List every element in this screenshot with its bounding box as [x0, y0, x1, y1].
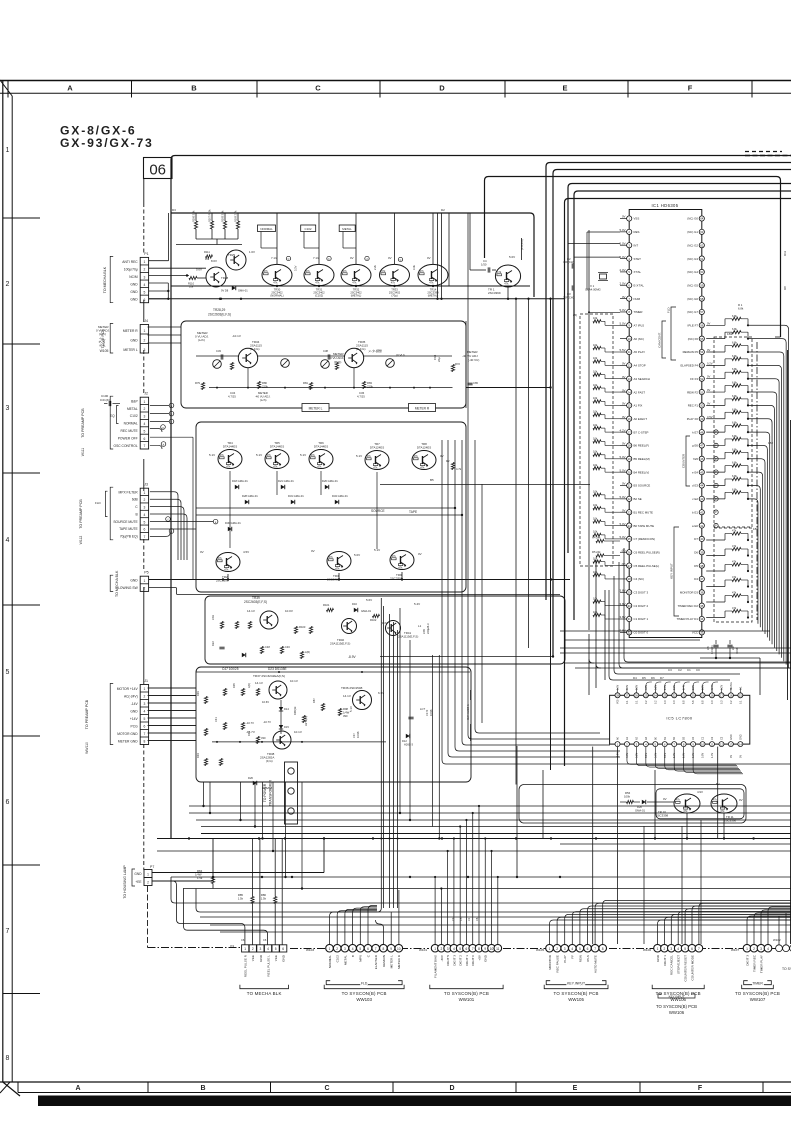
svg-text:3: 3	[447, 947, 449, 951]
svg-text:47k: 47k	[676, 797, 681, 801]
svg-text:10.1V: 10.1V	[294, 730, 302, 734]
svg-text:3: 3	[143, 348, 145, 352]
svg-text:3.8V: 3.8V	[692, 685, 695, 690]
wire bottom chain line y948	[148, 947, 242, 949]
svg-text:W105: W105	[536, 948, 544, 952]
svg-text:8.6V: 8.6V	[211, 259, 217, 263]
svg-text:0V: 0V	[739, 798, 743, 802]
svg-text:5.0V: 5.0V	[354, 553, 360, 557]
wire collector rails block1	[276, 213, 278, 264]
svg-text:4: 4	[267, 947, 269, 951]
svg-text:IPLE F7: IPLE F7	[688, 324, 699, 328]
svg-text:3: 3	[670, 947, 672, 951]
left small resistors R93 R94	[204, 697, 207, 704]
transistor TR6 DTA144ES	[309, 450, 333, 469]
svg-text:3.8V: 3.8V	[702, 685, 705, 690]
svg-text:3.4V: 3.4V	[683, 685, 686, 690]
svg-text:0V: 0V	[707, 401, 710, 405]
svg-text:1: 1	[147, 873, 149, 877]
svg-text:MOTOR +14V: MOTOR +14V	[117, 687, 139, 691]
svg-text:10: 10	[490, 947, 494, 951]
svg-text:TO SYSCON(B) PCB: TO SYSCON(B) PCB	[656, 1004, 697, 1009]
svg-text:2: 2	[147, 881, 149, 885]
svg-text:GMA-01: GMA-01	[238, 289, 248, 293]
svg-text:E-X'TAL: E-X'TAL	[634, 283, 645, 287]
svg-text:16: 16	[628, 417, 632, 421]
svg-text:8: 8	[6, 1055, 10, 1062]
svg-text:17: 17	[628, 430, 632, 434]
svg-text:47k: 47k	[264, 269, 269, 273]
diodes D18 D21 D26 GMA-01 row	[235, 485, 239, 489]
svg-text:40: 40	[700, 537, 704, 541]
svg-text:47k: 47k	[420, 269, 425, 273]
svg-text:5.0V: 5.0V	[620, 455, 626, 459]
svg-text:b E1: b E1	[692, 510, 698, 514]
svg-text:14.1V: 14.1V	[343, 694, 351, 698]
wire bottom bus group	[189, 805, 791, 807]
svg-text:39: 39	[700, 550, 704, 554]
svg-text:POWER OFF: POWER OFF	[118, 436, 138, 440]
svg-text:GND: GND	[130, 290, 138, 294]
svg-text:SOURCE MUTE: SOURCE MUTE	[113, 520, 138, 524]
svg-text:W103: W103	[306, 948, 314, 952]
svg-text:R108 3.3k: R108 3.3k	[222, 210, 225, 222]
svg-text:(3.4V: (3.4V	[381, 621, 388, 625]
block4 bottom parts	[219, 646, 224, 648]
wire meter internals	[196, 355, 238, 357]
svg-text:f E5: f E5	[693, 457, 699, 461]
block1 resistors R106-R109	[194, 221, 197, 229]
svg-text:24: 24	[654, 694, 658, 698]
connector WW106	[643, 944, 704, 1002]
svg-text:2: 2	[440, 947, 442, 951]
transistor TR33 2SC3402	[380, 264, 410, 285]
net bubble c	[286, 256, 290, 260]
svg-text:3: 3	[6, 405, 10, 412]
svg-text:5.4V: 5.4V	[414, 602, 420, 606]
svg-text:TAPE: TAPE	[409, 510, 417, 514]
svg-text:X'TAL: X'TAL	[634, 270, 642, 274]
svg-text:GND: GND	[130, 282, 138, 286]
svg-text:(-40 VU): (-40 VU)	[468, 358, 479, 362]
svg-text:7: 7	[143, 732, 145, 736]
svg-text:KEY INPUT: KEY INPUT	[669, 995, 685, 999]
svg-text:B3 SOURCE: B3 SOURCE	[634, 484, 651, 488]
svg-text:10k: 10k	[593, 383, 598, 387]
svg-text:47k: 47k	[732, 529, 737, 533]
svg-text:2SC3399: 2SC3399	[488, 291, 501, 295]
svg-text:14: 14	[628, 390, 632, 394]
svg-text:5: 5	[275, 947, 277, 951]
svg-text:1.0V: 1.0V	[711, 753, 714, 758]
svg-text:L1: L1	[418, 624, 422, 628]
svg-text:NORMAL: NORMAL	[328, 955, 332, 969]
svg-text:W101: W101	[419, 948, 427, 952]
svg-text:NORMAL: NORMAL	[260, 227, 273, 231]
svg-text:(NC) G1: (NC) G1	[687, 230, 698, 234]
svg-text:4: 4	[143, 513, 145, 517]
svg-text:27: 27	[628, 564, 632, 568]
svg-text:D7: D7	[660, 676, 664, 680]
svg-text:D: D	[449, 1085, 454, 1092]
svg-text:D4: D4	[633, 676, 637, 680]
connector W102 cut at right edge	[773, 938, 791, 971]
svg-text:13: 13	[729, 742, 733, 746]
svg-text:10.1V: 10.1V	[290, 679, 298, 683]
svg-text:1: 1	[329, 947, 331, 951]
svg-text:R87: R87	[312, 698, 316, 703]
svg-text:10k: 10k	[205, 257, 210, 261]
svg-text:4: 4	[143, 710, 145, 714]
svg-text:(NC) G3: (NC) G3	[687, 257, 698, 261]
transistor TR30 2SC3402	[262, 264, 292, 285]
svg-text:W105: W105	[100, 349, 109, 353]
svg-text:C170: C170	[425, 709, 429, 716]
svg-text:6.8: 6.8	[702, 700, 705, 704]
svg-text:METER R: METER R	[123, 329, 138, 333]
chain line right edge	[756, 342, 758, 620]
svg-text:7: 7	[698, 947, 700, 951]
net bubble h J2	[150, 445, 162, 449]
pot R80 220k	[281, 359, 290, 368]
svg-text:C6 REEL PULSE(R): C6 REEL PULSE(R)	[634, 550, 660, 554]
svg-text:4: 4	[677, 947, 679, 951]
svg-text:(E,F,G): (E,F,G)	[250, 347, 260, 351]
wire lamp driver connections	[620, 801, 627, 803]
svg-text:REMAIN F5: REMAIN F5	[683, 350, 699, 354]
connector WW105	[536, 944, 608, 1002]
svg-text:D16: D16	[352, 602, 357, 606]
svg-text:A2 FAST: A2 FAST	[634, 390, 646, 394]
svg-text:56: 56	[700, 324, 704, 328]
resistor R4 24k	[596, 539, 604, 542]
svg-text:31: 31	[628, 617, 632, 621]
svg-text:ANTI: ANTI	[711, 684, 714, 690]
svg-text:TO SYSCON(B) PCB: TO SYSCON(B) PCB	[342, 991, 387, 996]
wire vertical x449	[448, 213, 450, 286]
svg-text:4.5V: 4.5V	[243, 550, 249, 554]
svg-text:GND: GND	[134, 872, 142, 876]
svg-text:6: 6	[282, 947, 284, 951]
svg-text:C33: C33	[216, 349, 221, 353]
svg-text:2SA1115(E,F,S): 2SA1115(E,F,S)	[398, 635, 418, 639]
svg-text:H26C-3: H26C-3	[404, 743, 413, 747]
svg-text:6: 6	[367, 947, 369, 951]
wire mute bus lines	[196, 507, 455, 509]
IC1 left 10k resistor ladder with dashed box	[573, 230, 620, 630]
svg-text:D: D	[439, 84, 445, 93]
svg-text:A: A	[67, 84, 73, 93]
svg-text:GND: GND	[282, 954, 286, 962]
svg-text:6.8k: 6.8k	[732, 367, 738, 371]
svg-text:0.2V: 0.2V	[707, 361, 713, 365]
svg-text:GND: GND	[259, 954, 263, 962]
svg-text:10k: 10k	[593, 396, 598, 400]
svg-text:47k: 47k	[732, 606, 737, 610]
svg-text:1.6V: 1.6V	[249, 250, 255, 254]
svg-text:2: 2	[336, 947, 338, 951]
wire J1 to block5	[148, 687, 197, 689]
svg-text:STET: STET	[634, 257, 642, 261]
svg-text:1.5k: 1.5k	[238, 896, 244, 900]
svg-text:C102: C102	[305, 227, 312, 231]
pot VR -40vu	[386, 359, 395, 368]
svg-text:MONITOR D3: MONITOR D3	[680, 591, 698, 595]
wire P7 +EE staircase to P4 pin1	[152, 881, 245, 945]
svg-text:E: E	[573, 1085, 578, 1092]
boxed label NORMAL	[258, 225, 276, 232]
svg-text:47k: 47k	[732, 560, 737, 564]
svg-text:A: A	[75, 1085, 80, 1092]
block5 diodes D14 D15	[280, 700, 282, 722]
svg-text:47k: 47k	[329, 555, 334, 559]
svg-text:METER GND: METER GND	[118, 739, 138, 743]
svg-text:2.9V: 2.9V	[664, 685, 667, 690]
svg-text:47k: 47k	[315, 281, 320, 285]
svg-text:C: C	[324, 1085, 329, 1092]
svg-text:C6: C6	[241, 938, 245, 942]
svg-text:15: 15	[739, 694, 743, 698]
svg-text:4.8V: 4.8V	[645, 685, 648, 690]
svg-text:47k: 47k	[311, 453, 316, 457]
diode D8 GMA-01	[232, 286, 236, 290]
svg-text:GND: GND	[130, 579, 138, 583]
svg-text:0.2: 0.2	[654, 700, 657, 704]
svg-text:47k: 47k	[226, 465, 231, 469]
svg-text:A5 PLAY: A5 PLAY	[634, 350, 646, 354]
svg-text:4.7/25: 4.7/25	[357, 395, 365, 399]
transistor TR9 2SC3399	[390, 551, 414, 570]
svg-text:C5: C5	[459, 917, 463, 921]
svg-text:EQ: EQ	[110, 414, 115, 418]
IC5 top arcs	[646, 682, 652, 693]
svg-text:100µ/70µ: 100µ/70µ	[124, 267, 138, 271]
svg-text:0V: 0V	[622, 482, 626, 486]
svg-text:47k: 47k	[398, 566, 403, 570]
svg-text:3.8V: 3.8V	[635, 685, 638, 690]
transistor TR14 2SC3399	[418, 264, 448, 285]
svg-text:B5: B5	[430, 478, 434, 482]
wire b5 horizontal y484	[380, 484, 590, 486]
svg-text:4: 4	[352, 947, 354, 951]
svg-text:8: 8	[143, 740, 145, 744]
svg-text:R5 24k: R5 24k	[592, 550, 601, 554]
CAM CENT bracket	[662, 321, 666, 358]
svg-text:5.0V: 5.0V	[683, 753, 686, 758]
transistor TR41 2SA1115	[386, 621, 401, 636]
svg-text:7: 7	[6, 928, 10, 935]
svg-text:(0 VU): (0 VU)	[102, 339, 106, 347]
transistor TR3 2SC3402	[327, 552, 351, 571]
svg-text:WW107: WW107	[750, 997, 766, 1002]
svg-text:11: 11	[496, 947, 500, 951]
svg-text:C6: C6	[263, 938, 267, 942]
svg-text:-30V: -30V	[440, 954, 444, 961]
svg-text:12: 12	[628, 364, 632, 368]
svg-text:GND: GND	[739, 734, 742, 740]
wire verticals below IC5 to strips	[516, 746, 518, 877]
transistor TR7 DTA124ES	[365, 451, 389, 470]
svg-text:GMA-01: GMA-01	[635, 808, 646, 812]
svg-text:0V: 0V	[311, 549, 315, 553]
svg-text:REC CANCEL: REC CANCEL	[670, 955, 674, 975]
svg-text:13: 13	[628, 377, 632, 381]
svg-text:R96(1k: R96(1k	[293, 706, 297, 715]
svg-text:5.0V: 5.0V	[620, 522, 626, 526]
svg-text:41: 41	[700, 524, 704, 528]
svg-text:COUNTER RESET: COUNTER RESET	[684, 955, 688, 982]
svg-text:20: 20	[628, 470, 632, 474]
svg-text:(P): (P)	[622, 548, 626, 552]
svg-text:1: 1	[549, 947, 551, 951]
svg-text:MPX: MPX	[359, 955, 363, 962]
svg-text:20: 20	[692, 694, 696, 698]
svg-text:R83: R83	[367, 381, 372, 385]
svg-text:6.8k: 6.8k	[732, 474, 738, 478]
svg-text:3: 3	[760, 947, 762, 951]
svg-text:GND: GND	[130, 298, 138, 302]
IC5 bottom pin row	[615, 734, 743, 758]
svg-text:GX-93/GX-73: GX-93/GX-73	[60, 136, 154, 150]
svg-text:47k: 47k	[220, 453, 225, 457]
svg-text:TAPE MUTE: TAPE MUTE	[119, 527, 138, 531]
svg-text:0V: 0V	[739, 755, 742, 758]
svg-text:R97: R97	[247, 731, 251, 736]
svg-text:5: 5	[143, 520, 145, 524]
svg-text:C48: C48	[265, 645, 270, 649]
svg-text:1: 1	[143, 260, 145, 264]
svg-text:10/16: 10/16	[356, 731, 360, 738]
wire J3 to block3	[150, 528, 196, 530]
svg-text:D14: D14	[284, 707, 289, 711]
svg-text:2: 2	[753, 947, 755, 951]
svg-text:TR36 2SD1508: TR36 2SD1508	[341, 686, 363, 690]
resistor R111	[206, 255, 213, 258]
svg-text:45: 45	[700, 470, 704, 474]
block1 outline wire	[172, 213, 535, 297]
svg-text:48: 48	[700, 430, 704, 434]
svg-text:J4: J4	[144, 319, 148, 323]
svg-text:5.8V: 5.8V	[702, 753, 705, 758]
IC1 right ladder 47k with dashed box	[706, 527, 758, 622]
svg-text:P1: P1	[144, 252, 148, 256]
wire right page-edge verticals	[787, 350, 789, 700]
block3 outline wire	[196, 422, 466, 592]
svg-text:6: 6	[143, 725, 145, 729]
svg-text:1: 1	[434, 947, 436, 951]
svg-text:(C102): (C102)	[315, 294, 323, 298]
diode D25 H26A-2	[253, 781, 257, 785]
svg-text:22: 22	[628, 497, 632, 501]
wire J1 vertical drops	[203, 782, 205, 806]
net bubbles a b c J2	[150, 405, 169, 407]
border left band inner line	[11, 96, 13, 1082]
IC1 right pin column	[677, 216, 705, 635]
svg-text:5.1V: 5.1V	[209, 453, 215, 457]
block4 outline wire	[205, 596, 565, 664]
svg-text:8: 8	[478, 947, 480, 951]
IC1 oscillator parts C2 C3 X1	[571, 263, 573, 268]
svg-text:5.0V: 5.0V	[620, 241, 626, 245]
svg-text:1B3: 1B3	[727, 332, 733, 336]
wire corner bundle into IC5 region	[442, 760, 791, 764]
svg-text:METER R: METER R	[415, 407, 430, 411]
svg-text:1: 1	[657, 947, 659, 951]
svg-text:3: 3	[143, 506, 145, 510]
svg-text:7.1V: 7.1V	[271, 256, 277, 260]
diode D20 GMA-01	[642, 800, 646, 804]
svg-text:6.8k: 6.8k	[732, 434, 738, 438]
svg-text:TIMER REC D2: TIMER REC D2	[678, 604, 699, 608]
transistor TR2 2SC3399	[216, 553, 240, 572]
svg-text:47k: 47k	[720, 809, 725, 813]
svg-text:NC/M: NC/M	[129, 275, 138, 279]
svg-text:AUTO MUTE: AUTO MUTE	[594, 955, 598, 973]
svg-text:0.3: 0.3	[711, 700, 714, 704]
svg-text:6dB: 6dB	[132, 498, 139, 502]
block2 meter outline wire	[181, 321, 466, 408]
svg-text:10k: 10k	[189, 285, 194, 289]
svg-text:METAL: METAL	[730, 681, 733, 690]
svg-text:WW103: WW103	[356, 997, 372, 1002]
svg-text:(NORMAL): (NORMAL)	[270, 294, 283, 298]
wire drops to W102 strip	[778, 916, 780, 945]
svg-text:100k: 100k	[624, 794, 631, 798]
svg-text:(B): (B)	[573, 313, 577, 317]
svg-text:e E4: e E4	[692, 470, 698, 474]
svg-text:TIMER: TIMER	[634, 310, 643, 314]
connector P7 housing lamp	[144, 870, 152, 878]
wire nest h4	[485, 177, 781, 338]
svg-text:1: 1	[143, 687, 145, 691]
wire J1 feeds	[149, 687, 196, 689]
svg-text:-8.9V: -8.9V	[348, 655, 356, 659]
border top band line	[0, 80, 791, 82]
svg-text:37: 37	[700, 577, 704, 581]
svg-text:21: 21	[628, 484, 632, 488]
wire P7 to bus	[152, 872, 324, 874]
svg-text:CSA4.00MG: CSA4.00MG	[585, 288, 601, 292]
wire J2 power off	[150, 436, 193, 438]
svg-text:DTA144ES: DTA144ES	[223, 444, 237, 448]
svg-text:7: 7	[594, 947, 596, 951]
border bottom band lower line	[18, 1092, 791, 1094]
svg-text:0V: 0V	[388, 256, 392, 260]
svg-text:D26: D26	[248, 776, 253, 780]
svg-text:WW101: WW101	[459, 997, 475, 1002]
svg-text:B2 SE: B2 SE	[634, 497, 642, 501]
IC5 top pin row	[615, 681, 743, 704]
svg-text:6: 6	[143, 437, 145, 441]
connector P1	[103, 252, 149, 303]
svg-text:47k: 47k	[267, 453, 272, 457]
svg-text:C7 (REMOCON): C7 (REMOCON)	[634, 537, 656, 541]
svg-text:23: 23	[628, 510, 632, 514]
svg-text:6: 6	[466, 947, 468, 951]
svg-text:38: 38	[700, 564, 704, 568]
transistor TR40 2SA1115	[342, 619, 357, 634]
pot VR meter L	[213, 360, 222, 369]
svg-text:C3: C3	[451, 917, 455, 921]
svg-text:FLD: FLD	[95, 501, 102, 505]
svg-text:R72: R72	[455, 362, 460, 366]
resistor R2 R3 4.7k	[451, 463, 454, 470]
svg-text:LOWING SW: LOWING SW	[118, 586, 138, 590]
svg-text:5.1V: 5.1V	[349, 706, 353, 712]
svg-text:47k: 47k	[420, 466, 425, 470]
svg-text:C3 DIGIT 3: C3 DIGIT 3	[634, 591, 649, 595]
svg-text:0V: 0V	[622, 362, 626, 366]
